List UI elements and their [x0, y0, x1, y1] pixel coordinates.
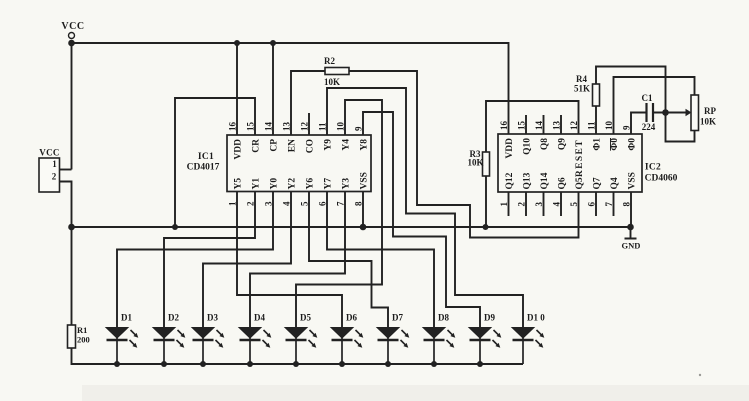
- svg-text:C1: C1: [642, 93, 653, 103]
- svg-text:5: 5: [300, 201, 310, 206]
- svg-text:15: 15: [246, 122, 256, 132]
- svg-text:11: 11: [318, 122, 328, 131]
- svg-text:D2: D2: [168, 313, 179, 323]
- svg-text:1: 1: [228, 201, 238, 206]
- svg-text:Y4: Y4: [342, 139, 352, 151]
- svg-text:R1: R1: [77, 325, 87, 335]
- svg-text:CP: CP: [270, 139, 280, 152]
- svg-text:VSS: VSS: [360, 172, 370, 189]
- svg-text:14: 14: [534, 121, 544, 131]
- svg-text:Q6: Q6: [558, 177, 568, 189]
- svg-text:2: 2: [52, 172, 57, 182]
- svg-text:Φ0: Φ0: [610, 138, 620, 151]
- svg-text:IC2: IC2: [645, 163, 661, 173]
- svg-text:6: 6: [587, 202, 597, 207]
- svg-text:51K: 51K: [574, 84, 590, 94]
- svg-text:Y0: Y0: [270, 178, 280, 190]
- svg-text:8: 8: [354, 201, 364, 206]
- svg-text:10K: 10K: [467, 158, 483, 168]
- svg-text:12: 12: [569, 121, 579, 131]
- svg-text:CD4017: CD4017: [187, 163, 220, 173]
- svg-text:200: 200: [77, 335, 90, 345]
- svg-text:D4: D4: [254, 313, 265, 323]
- svg-text:8: 8: [622, 202, 632, 207]
- svg-text:D5: D5: [300, 313, 311, 323]
- svg-text:11: 11: [587, 121, 597, 130]
- svg-text:VDD: VDD: [234, 139, 244, 160]
- svg-text:Q13: Q13: [523, 172, 533, 189]
- svg-text:4: 4: [282, 201, 292, 206]
- svg-text:3: 3: [534, 202, 544, 207]
- svg-text:2: 2: [517, 202, 527, 207]
- svg-text:Q9: Q9: [558, 138, 568, 150]
- svg-text:13: 13: [552, 121, 562, 131]
- svg-text:13: 13: [282, 122, 292, 132]
- svg-text:Y5: Y5: [234, 178, 244, 190]
- svg-text:1: 1: [52, 159, 57, 169]
- svg-text:R2: R2: [324, 56, 335, 66]
- svg-text:10K: 10K: [324, 77, 340, 87]
- svg-text:Y9: Y9: [324, 139, 334, 151]
- svg-text:CD4060: CD4060: [645, 174, 678, 184]
- svg-text:Y3: Y3: [342, 178, 352, 190]
- svg-text:224: 224: [642, 122, 656, 132]
- svg-text:VCC: VCC: [61, 21, 84, 32]
- svg-text:D1 0: D1 0: [527, 313, 545, 323]
- svg-text:Q4: Q4: [610, 177, 620, 189]
- svg-text:Q7: Q7: [593, 177, 603, 189]
- svg-text:D1: D1: [121, 313, 132, 323]
- svg-text:Φ1: Φ1: [593, 138, 603, 151]
- svg-text:Y8: Y8: [360, 139, 370, 151]
- svg-text:12: 12: [300, 122, 310, 132]
- svg-text:Q12: Q12: [505, 172, 515, 189]
- svg-text:Q8: Q8: [540, 138, 550, 150]
- svg-text:R4: R4: [576, 74, 587, 84]
- svg-text:VSS: VSS: [628, 172, 638, 189]
- svg-text:CR: CR: [252, 139, 262, 153]
- svg-text:Y1: Y1: [252, 178, 262, 190]
- svg-text:Q14: Q14: [540, 172, 550, 189]
- svg-text:D3: D3: [207, 313, 218, 323]
- svg-text:Y7: Y7: [324, 178, 334, 190]
- svg-text:7: 7: [336, 201, 346, 206]
- svg-text:10: 10: [336, 122, 346, 132]
- svg-text:GND: GND: [622, 241, 641, 251]
- svg-text:Q5: Q5: [575, 177, 585, 189]
- svg-text:2: 2: [246, 201, 256, 206]
- svg-text:16: 16: [499, 121, 509, 131]
- svg-text:10K: 10K: [700, 117, 716, 127]
- svg-text:5: 5: [569, 202, 579, 207]
- svg-text:VCC: VCC: [39, 148, 59, 158]
- svg-text:Y2: Y2: [288, 178, 298, 190]
- svg-text:1: 1: [499, 202, 509, 207]
- svg-text:D6: D6: [346, 313, 357, 323]
- svg-text:RESET: RESET: [575, 139, 585, 177]
- svg-text:7: 7: [604, 202, 614, 207]
- svg-text:Y6: Y6: [306, 178, 316, 190]
- svg-text:IC1: IC1: [198, 152, 214, 162]
- svg-text:EN: EN: [288, 139, 298, 152]
- svg-text:CO: CO: [306, 139, 316, 153]
- svg-text:9: 9: [354, 126, 364, 131]
- svg-text:Φ0: Φ0: [628, 138, 638, 151]
- svg-text:VDD: VDD: [505, 138, 515, 159]
- svg-text:14: 14: [264, 122, 274, 132]
- svg-text:3: 3: [264, 201, 274, 206]
- svg-text:RP: RP: [704, 106, 716, 116]
- svg-text:Q10: Q10: [523, 138, 533, 155]
- svg-text:4: 4: [552, 202, 562, 207]
- svg-text:D8: D8: [438, 313, 449, 323]
- svg-text:10: 10: [604, 121, 614, 131]
- svg-text:D9: D9: [484, 313, 495, 323]
- svg-text:9: 9: [622, 125, 632, 130]
- svg-text:16: 16: [228, 122, 238, 132]
- svg-text:15: 15: [517, 121, 527, 131]
- svg-text:6: 6: [318, 201, 328, 206]
- svg-text:D7: D7: [392, 313, 403, 323]
